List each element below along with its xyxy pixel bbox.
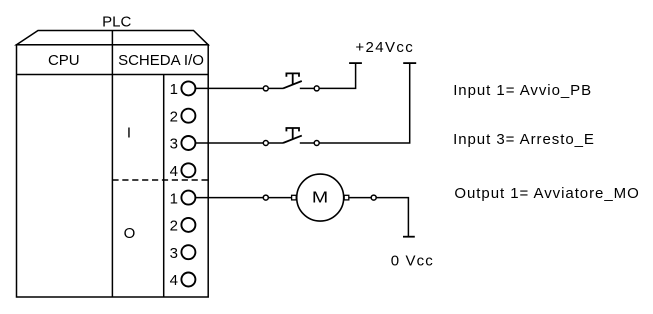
CPU / SCHEDA I/O divider — [111, 31, 113, 298]
motor M (Avviatore_MO) — [292, 174, 349, 221]
output terminal 2 — [181, 218, 195, 232]
input terminal 4 — [181, 163, 195, 177]
I/O section dashed separator — [112, 179, 208, 181]
output terminal 4 — [181, 273, 195, 287]
svg-text:2: 2 — [170, 218, 178, 235]
svg-text:1: 1 — [170, 190, 178, 207]
output terminal 1 — [181, 191, 195, 205]
svg-text:4: 4 — [170, 272, 178, 289]
svg-text:2: 2 — [170, 108, 178, 125]
wire contact to 0Vcc terminal — [376, 198, 408, 237]
pushbutton Arresto_E — [263, 128, 319, 146]
PLC enclosure top face — [17, 31, 209, 45]
motor circuit contact right — [371, 195, 376, 200]
svg-text:PLC: PLC — [102, 13, 131, 30]
wire contact to motor — [268, 197, 291, 199]
svg-text:CPU: CPU — [48, 52, 80, 69]
svg-text:3: 3 — [170, 245, 178, 262]
input terminal 3 — [181, 136, 195, 150]
svg-text:1: 1 — [170, 81, 178, 98]
wire pushbutton to input3 — [195, 142, 263, 144]
0 Vcc terminal bar — [403, 236, 415, 238]
svg-text:+24Vcc: +24Vcc — [355, 39, 414, 56]
svg-text:0 Vcc: 0 Vcc — [391, 252, 434, 269]
motor circuit contact left — [263, 195, 268, 200]
svg-text:Input 3= Arresto_E: Input 3= Arresto_E — [453, 131, 595, 148]
pushbutton Avvio_PB (NO) — [263, 73, 319, 91]
wire output1 to motor contact — [195, 197, 263, 199]
svg-text:O: O — [124, 225, 136, 242]
+24Vcc supply terminal right — [403, 62, 416, 64]
svg-text:Output 1= Avviatore_MO: Output 1= Avviatore_MO — [454, 185, 639, 202]
header separator line — [17, 74, 209, 76]
wire +24Vcc rail down to NC switch — [319, 64, 410, 143]
terminal column divider — [163, 75, 165, 298]
wire pushbutton to +24Vcc rail — [319, 64, 355, 89]
svg-text:M: M — [312, 190, 328, 207]
svg-text:3: 3 — [170, 136, 178, 153]
output terminal 3 — [181, 245, 195, 259]
wire input1 to pushbutton — [195, 87, 263, 89]
svg-text:Input 1= Avvio_PB: Input 1= Avvio_PB — [453, 82, 592, 99]
svg-text:SCHEDA I/O: SCHEDA I/O — [118, 52, 204, 69]
input terminal 1 — [181, 81, 195, 95]
PLC enclosure front face — [17, 45, 209, 297]
wire motor to contact right — [349, 197, 371, 199]
svg-text:I: I — [127, 125, 131, 142]
input terminal 2 — [181, 109, 195, 123]
svg-text:4: 4 — [170, 163, 178, 180]
+24Vcc supply terminal left — [349, 62, 362, 64]
